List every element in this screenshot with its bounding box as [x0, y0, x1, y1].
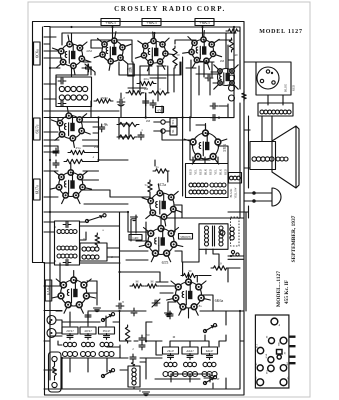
wire lower mid buses [44, 212, 244, 263]
RF coil bank section 2 [80, 327, 96, 357]
svg-text:41M: 41M [86, 49, 92, 53]
wire output stage runs [168, 295, 213, 318]
wire bottom section verticals [70, 312, 209, 347]
svg-text:+6K5: +6K5 [105, 20, 116, 25]
capacitor C3 [138, 132, 144, 140]
wire V6 plate runs [44, 180, 150, 197]
svg-text:4A: 4A [287, 376, 290, 379]
wire AVC bus [56, 62, 180, 86]
headphone jack [253, 188, 281, 206]
wire mid bus y140 [44, 124, 129, 140]
capacitor C7 [150, 100, 156, 108]
RF coil bank section 3 [99, 327, 115, 357]
label box 1T5 [128, 64, 135, 76]
svg-text:11: 11 [54, 225, 57, 229]
wire top heater bus [50, 27, 240, 45]
wire lower center verticals [168, 171, 228, 282]
svg-text:6AB: 6AB [265, 353, 268, 358]
speaker voice coil box [250, 142, 288, 170]
svg-text:MODEL 1127: MODEL 1127 [259, 29, 303, 35]
svg-text:.05: .05 [103, 122, 107, 126]
svg-text:2M: 2M [144, 87, 149, 91]
svg-text:RED: RED [199, 168, 203, 175]
tube V5 6U7 RF amp [51, 107, 90, 148]
capacitor C13 [205, 75, 213, 81]
svg-text:10: 10 [218, 262, 222, 266]
phono switch contacts [154, 118, 177, 135]
resistor R11 [64, 159, 85, 163]
resistor R17 [145, 284, 159, 288]
capacitor C8 pair right [210, 103, 218, 109]
svg-text:YEL: YEL [194, 169, 198, 175]
filter choke box [229, 173, 242, 199]
tube V11 6K6 output [167, 273, 211, 316]
svg-text:2M: 2M [146, 119, 151, 123]
layout tube 10 [280, 379, 287, 386]
junction dots [70, 26, 72, 28]
tube V8 6C5 1st audio [142, 184, 182, 226]
tube V9 6A8 converter [52, 271, 96, 314]
svg-text:RED: RED [224, 168, 228, 175]
wave trap switch [85, 214, 106, 223]
svg-text:SHOWN: SHOWN [180, 236, 190, 239]
resistor R15 [211, 266, 229, 270]
capacitor C14 osc padder [130, 354, 136, 362]
svg-text:250M: 250M [100, 96, 108, 100]
antenna terminal A [47, 316, 56, 325]
wire right column verticals [228, 212, 249, 311]
label box 6C6a [34, 42, 41, 65]
resistor R9 edge [117, 135, 137, 139]
power switch contacts [228, 250, 244, 257]
wire bottom distribution [44, 272, 244, 311]
B+ shield can (dashed) [230, 217, 239, 246]
wire mesh upper center [128, 60, 240, 117]
tube V1 6C6 1st detector [53, 35, 91, 75]
capacitor C6 [143, 98, 149, 106]
wire left border inner runs [43, 27, 51, 380]
svg-text:+6K5: +6K5 [146, 20, 157, 25]
wire mesh IF can area [44, 212, 120, 272]
wire upper grid runs [91, 40, 232, 62]
svg-text:M: M [173, 335, 176, 339]
resistor R1 [94, 99, 113, 103]
wire mid bus y160 [44, 118, 155, 167]
resistor R12 [153, 169, 169, 173]
tube V12 6G5 tuning eye [214, 65, 238, 89]
svg-text:M: M [188, 269, 191, 273]
speaker plug connector [257, 67, 279, 89]
wire mesh lower center [87, 118, 206, 294]
electrolytic capacitors [229, 75, 235, 101]
ground at osc padder [143, 392, 150, 396]
svg-text:BLK: BLK [204, 168, 208, 175]
svg-text:6T5: 6T5 [162, 260, 169, 265]
label box 6A8a [45, 280, 52, 301]
resistor R16 [130, 284, 144, 288]
svg-text:20a: 20a [144, 77, 149, 81]
layout tube 1 [271, 318, 278, 325]
svg-text:25a: 25a [94, 145, 99, 149]
label box 6K5 (3rd) [195, 19, 214, 26]
wire audio coupling runs [120, 194, 182, 251]
svg-text:CROSLEY RADIO CORP.: CROSLEY RADIO CORP. [114, 5, 226, 13]
svg-text:GRN: GRN [133, 237, 139, 240]
label box 6U7e [34, 118, 41, 140]
wire top-left corner mesh [44, 27, 119, 112]
wire mesh mid-left [44, 118, 128, 205]
wire y68 runs [50, 68, 121, 118]
resistor R18 vertical [95, 233, 99, 247]
svg-text:50: 50 [147, 333, 151, 337]
tube V10 6T5 driver [139, 219, 183, 262]
svg-text:2K4?: 2K4? [167, 349, 174, 353]
svg-text:4T: 4T [216, 377, 220, 381]
power transformer T3 [186, 164, 229, 198]
svg-text:BLACK: BLACK [230, 188, 233, 197]
wire bottom row y358-370 [44, 358, 200, 379]
resistor R19 vertical [125, 325, 129, 343]
wire y286 runs [44, 263, 240, 286]
capacitor C10 variable [152, 300, 160, 306]
ground terminal G [47, 329, 56, 338]
svg-text:MODEL...1127: MODEL...1127 [276, 271, 282, 307]
svg-text:TVL: TVL [172, 119, 175, 124]
wire long bus y117 [44, 93, 234, 160]
svg-text:4W4?: 4W4? [84, 329, 92, 333]
svg-text:SEPTEMBER, 1937: SEPTEMBER, 1937 [291, 215, 297, 262]
band switch wafer B [101, 374, 104, 377]
svg-text:6U7o: 6U7o [34, 185, 39, 194]
wire V1 plate run [72, 48, 103, 77]
osc coil bank section 3 [202, 347, 218, 377]
svg-text:M: M [135, 280, 138, 284]
label box 6U7o [34, 179, 41, 200]
ground at volume control [94, 308, 101, 312]
antenna coil vertical [128, 366, 140, 387]
svg-text:NL: NL [172, 129, 175, 133]
capacitor C1 [86, 64, 92, 72]
resistor R6 vertical right [229, 38, 233, 52]
layout tube 3 [280, 337, 287, 344]
svg-text:40: 40 [235, 53, 239, 57]
tuning condenser section top [85, 308, 137, 320]
speaker cone [272, 126, 299, 188]
svg-text:6C6a: 6C6a [34, 49, 39, 58]
svg-text:455 Kc. IF: 455 Kc. IF [284, 279, 290, 304]
svg-text:BLK: BLK [219, 168, 223, 175]
resistor R4 [149, 91, 169, 95]
RF coil bank section 1 [62, 327, 78, 357]
svg-text:4C: 4C [255, 362, 258, 365]
IF transformer T2 secondary [80, 243, 107, 261]
osc coil bank section 2 [182, 347, 198, 377]
svg-text:AK4?: AK4? [186, 349, 194, 353]
band switch wafer C [203, 329, 206, 332]
field coil [258, 103, 293, 116]
layout tube 8 [280, 365, 286, 371]
wire bottom bus y322 [62, 311, 162, 342]
wire rectifier leads [193, 125, 228, 163]
label box 6K5 (2nd) [142, 19, 161, 26]
resistor R3 [126, 91, 144, 95]
wire center verticals [146, 57, 210, 160]
label box MOVED [129, 235, 142, 241]
ground at audio divider [165, 313, 172, 317]
label box 6Y [156, 107, 164, 113]
band switch wafer D [203, 381, 206, 384]
resistor R2 20a [137, 81, 156, 85]
layout tube 2 [269, 338, 275, 344]
tube V6 6U7 IF amp [50, 163, 91, 203]
svg-text:M: M [150, 280, 153, 284]
svg-text:KK4?: KK4? [206, 349, 214, 353]
capacitor C9 [116, 303, 124, 309]
wire tube top leads [72, 27, 227, 68]
svg-text:6K6a: 6K6a [215, 298, 224, 303]
band switch wafer A [101, 318, 104, 321]
svg-text:6U7e: 6U7e [34, 124, 39, 133]
label box SHOWN [179, 234, 193, 240]
layout tube 4 [257, 347, 263, 353]
wire pin row runs [56, 58, 214, 66]
layout connector lugs [290, 336, 296, 365]
svg-text:41A: 41A [256, 344, 259, 348]
label box 6K5 (1st) [101, 19, 120, 26]
layout tube 6 [257, 365, 263, 371]
svg-text:1T5: 1T5 [127, 67, 132, 71]
svg-text:5o: 5o [85, 63, 89, 67]
svg-text:11: 11 [54, 259, 57, 263]
svg-text:RED: RED [209, 168, 213, 175]
svg-text:4B: 4B [255, 376, 258, 379]
wire bottom returns [44, 311, 240, 389]
svg-text:50: 50 [177, 53, 181, 57]
IF transformer T2 (tall can) [55, 221, 80, 266]
dial lamp assembly [49, 352, 62, 392]
svg-text:6C5a: 6C5a [158, 182, 167, 187]
resistor R13 vertical [148, 180, 152, 194]
tube V3 6K5 2nd IF [135, 32, 174, 71]
svg-text:RED: RED [292, 84, 296, 91]
svg-text:2M: 2M [220, 59, 225, 63]
pilot lamp [220, 231, 225, 236]
layout tube 5 [268, 357, 274, 363]
resistor R20 vertical right bus [242, 91, 246, 101]
layout tube 7 [268, 365, 274, 371]
capacitor C4 [53, 148, 59, 156]
tube V7 5Y3 rectifier [184, 124, 227, 165]
svg-text:10: 10 [215, 324, 219, 328]
output transformer T4 [199, 224, 228, 250]
capacitor C11 [167, 311, 173, 319]
svg-text:6Y: 6Y [158, 108, 163, 112]
oscillator coil T1 [56, 77, 92, 107]
capacitor C12 [139, 335, 145, 343]
osc coil bank section 1 [163, 347, 179, 377]
svg-text:5Y3: 5Y3 [222, 143, 227, 151]
resistor R7 top right [226, 29, 240, 33]
svg-text:6W4?: 6W4? [103, 329, 111, 333]
svg-text:YELLOW: YELLOW [235, 187, 238, 198]
wire speaker harness [244, 62, 291, 105]
resistor R14 [181, 273, 198, 277]
schematic outer border [33, 22, 245, 396]
resistor R10 25a [68, 150, 87, 154]
wire bank buses [44, 335, 244, 362]
svg-text:BLUE: BLUE [284, 84, 288, 92]
ground near V8 [131, 217, 138, 221]
svg-text:B: B [139, 389, 141, 393]
svg-text:2W4?: 2W4? [66, 329, 74, 333]
svg-text:+6K5: +6K5 [199, 20, 210, 25]
wire speaker column [244, 116, 254, 218]
wire speaker leads [244, 116, 272, 168]
wire bottom extras [50, 311, 226, 389]
wire antenna leads [56, 320, 62, 333]
svg-text:RED: RED [189, 168, 193, 175]
tube V4 6K5 det-avc [183, 31, 222, 70]
wire right inner bus [219, 27, 240, 218]
layout trimmer [277, 350, 283, 355]
chassis tube layout panel [255, 315, 289, 388]
capacitor C5 .05 [99, 124, 105, 132]
layout tube 9 [257, 379, 264, 386]
tube V2 6K5 IF amp [94, 32, 131, 71]
svg-text:YEL: YEL [214, 169, 218, 175]
resistor R8 edge [117, 122, 139, 126]
capacitor C2 [117, 99, 125, 105]
resistor R5 vertical [173, 46, 177, 68]
wire IF can leads [44, 221, 85, 223]
svg-text:25a: 25a [76, 146, 81, 150]
